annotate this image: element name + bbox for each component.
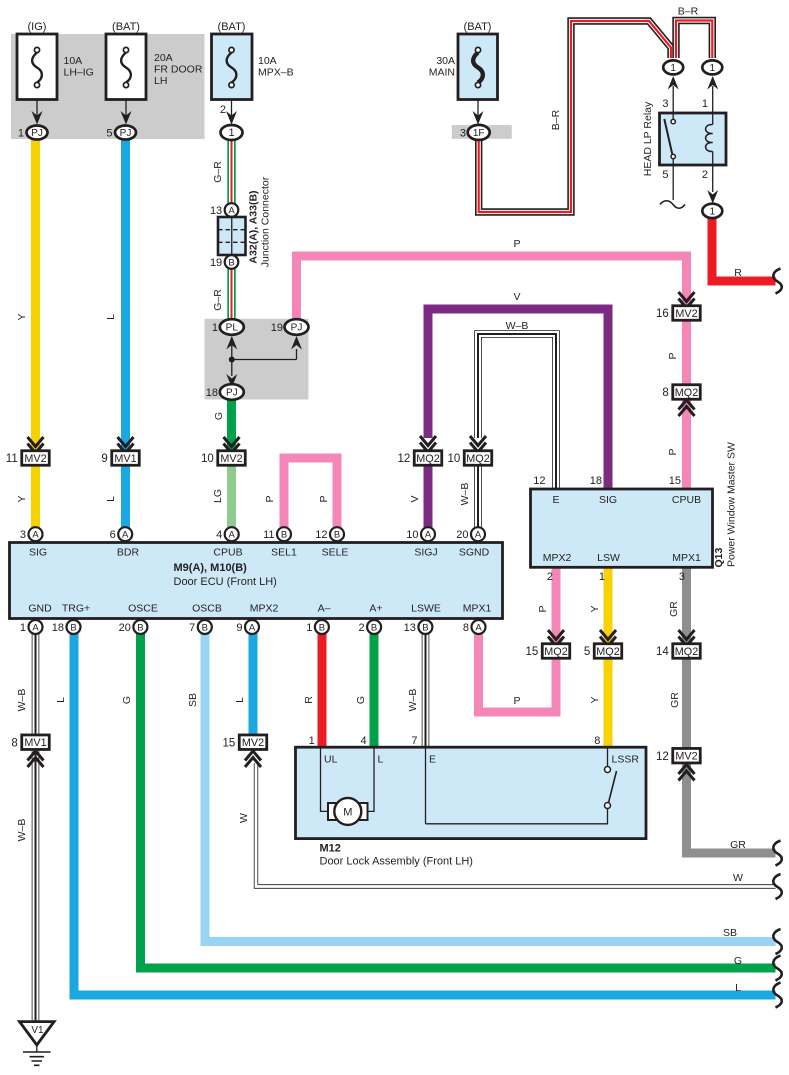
label G-R (upper) (212, 161, 224, 183)
wire P (PJ 19 up/over/down to 16 MV2) (297, 256, 687, 321)
svg-text:P: P (513, 238, 520, 250)
svg-text:MPX1: MPX1 (672, 552, 701, 564)
svg-text:11: 11 (6, 453, 18, 465)
svg-text:W–B: W–B (459, 483, 471, 506)
wire LG (MV2 to ECU CPUB) (227, 464, 236, 529)
svg-text:SIGJ: SIGJ (414, 547, 437, 559)
connector 8 MV1 (11, 735, 49, 750)
svg-text:P: P (537, 605, 549, 612)
pin 13 A (junction connector) (210, 203, 238, 217)
connector 1 (relay pin 1 feed) (702, 60, 722, 74)
chevron below 15 MV2 (245, 751, 261, 767)
svg-text:B: B (228, 257, 234, 268)
connector 1 (relay output) (702, 204, 722, 218)
svg-text:MV1: MV1 (24, 737, 46, 749)
svg-text:15: 15 (669, 475, 681, 487)
svg-text:1: 1 (18, 128, 24, 140)
label Y (above SIG) (16, 495, 28, 502)
label W-B (horizontal) (506, 320, 529, 332)
connector 15 MQ2 (525, 644, 569, 659)
svg-text:7: 7 (189, 622, 195, 634)
connector 15 MV2 (222, 735, 266, 750)
chevron below 8 MQ2 (679, 400, 695, 416)
chevron into 11 MV2 (28, 437, 44, 453)
svg-text:L: L (55, 697, 67, 703)
wire G-R (junction connector B to PL) (227, 266, 235, 322)
svg-text:PJ: PJ (31, 128, 43, 139)
svg-text:8: 8 (11, 737, 17, 749)
label L (below TRG+) (55, 697, 67, 703)
wire Y (Q13 LSW through 5 MQ2 to M12 LSSR) (604, 566, 613, 748)
svg-text:A: A (122, 530, 129, 541)
svg-text:(BAT): (BAT) (464, 21, 492, 33)
curl R end (773, 269, 781, 294)
svg-text:A–: A– (318, 603, 331, 615)
fuse 30A MAIN (429, 21, 498, 125)
connector 14 MQ2 (656, 644, 700, 659)
ECU pin 8 A MPX1 (463, 603, 492, 635)
svg-text:3: 3 (662, 98, 668, 110)
chevron below 12 MV2 (679, 765, 695, 781)
connector 12 MV2 (656, 748, 700, 763)
svg-text:A: A (475, 530, 482, 541)
svg-text:6: 6 (110, 529, 116, 541)
wire GR (Q13 MPX1 through 14 MQ2 and 12 MV2 to right edge) (687, 566, 776, 853)
ECU pin 4 A CPUB (213, 527, 242, 558)
label R (below A-) (303, 696, 315, 704)
label P (below Q13 MPX2) (537, 605, 549, 612)
label W-B (below LSWE) (407, 689, 419, 712)
svg-text:2: 2 (358, 622, 364, 634)
svg-text:18: 18 (52, 622, 64, 634)
label W-B (below GND) (16, 689, 28, 712)
svg-text:1: 1 (309, 735, 315, 747)
label SB (right edge) (723, 927, 737, 939)
wire B-R (1F to relay) (479, 21, 671, 212)
svg-text:MQ2: MQ2 (675, 387, 698, 399)
svg-text:G: G (734, 955, 742, 967)
chevron below 8 MV1 (28, 751, 44, 767)
svg-text:W–B: W–B (506, 320, 529, 332)
wire G (ECU A+ to M12 L) (370, 633, 379, 748)
chevron into 10 MQ2 (470, 436, 486, 452)
svg-text:L: L (378, 754, 384, 766)
label Y (upper run) (16, 313, 28, 320)
svg-text:5: 5 (662, 169, 668, 181)
svg-text:3: 3 (460, 127, 466, 139)
fuse 10A LH-IG (17, 21, 94, 125)
svg-text:LH–IG: LH–IG (64, 67, 94, 79)
svg-text:1: 1 (228, 127, 234, 139)
ECU pin 2 B A+ (358, 603, 382, 635)
svg-text:1: 1 (599, 571, 605, 583)
label P (above SEL1) (264, 495, 276, 502)
svg-text:16: 16 (656, 308, 669, 320)
connector 10 MQ2 (447, 451, 491, 466)
svg-text:W–B: W–B (16, 689, 28, 712)
label G (below OSCE) (121, 696, 133, 704)
label P (top horizontal) (513, 238, 520, 250)
svg-text:LSSR: LSSR (612, 754, 640, 766)
label W (below 15 MV2) (238, 813, 250, 823)
chevron into 15 MQ2 (548, 630, 564, 646)
svg-text:8: 8 (594, 735, 600, 747)
label GR (right edge) (730, 839, 746, 851)
svg-text:M9(A), M10(B): M9(A), M10(B) (174, 562, 248, 574)
label GR (above 12 MV2) (669, 692, 681, 708)
ECU pin 10 A SIGJ (406, 527, 437, 558)
fuse 20A FR DOOR LH (106, 21, 203, 125)
label G (below A+) (355, 696, 367, 704)
svg-text:MQ2: MQ2 (416, 453, 439, 465)
svg-text:L: L (105, 314, 117, 320)
svg-text:MPX2: MPX2 (250, 603, 279, 615)
svg-text:4: 4 (216, 529, 222, 541)
svg-text:Y: Y (16, 495, 28, 502)
svg-text:OSCE: OSCE (128, 603, 158, 615)
svg-text:1: 1 (670, 63, 676, 74)
connector 11 MV2 (6, 451, 49, 466)
svg-text:8: 8 (662, 387, 668, 399)
ECU M9/M10 Door ECU (Front LH) (10, 543, 503, 619)
svg-text:Junction Connector: Junction Connector (260, 176, 272, 267)
svg-text:L: L (105, 496, 117, 502)
chevron into 9 MV1 (118, 437, 134, 453)
svg-text:2: 2 (702, 169, 708, 181)
svg-text:B–R: B–R (678, 6, 699, 18)
svg-text:B: B (422, 622, 428, 633)
svg-text:12: 12 (533, 475, 545, 487)
chevron into 16 MV2 (679, 292, 695, 308)
label V (above SIGJ) (409, 495, 421, 502)
svg-text:A+: A+ (369, 603, 382, 615)
svg-text:M: M (343, 806, 352, 818)
label G-R (lower) (212, 289, 224, 311)
fuse 10A MPX-B (212, 21, 294, 125)
chevron into 12 MQ2 (420, 436, 436, 452)
svg-text:FR DOOR: FR DOOR (154, 64, 203, 76)
svg-text:TRG+: TRG+ (62, 603, 90, 615)
chevron into 14 MQ2 (679, 630, 695, 646)
label L (upper run) (105, 314, 117, 320)
svg-text:11: 11 (263, 529, 274, 541)
wire L (fuse FR DOOR to ECU BDR) (121, 139, 130, 529)
svg-text:G–R: G–R (212, 161, 224, 183)
svg-text:A: A (475, 622, 482, 633)
svg-text:14: 14 (656, 646, 669, 658)
ECU pin 9 A MPX2 (236, 603, 278, 635)
ECU pin 20 A SGND (456, 527, 489, 558)
connector 12 MQ2 (397, 451, 441, 466)
label L (right edge) (735, 982, 741, 994)
svg-text:15: 15 (222, 737, 235, 749)
svg-text:30A: 30A (436, 55, 455, 67)
svg-text:Door ECU (Front LH): Door ECU (Front LH) (174, 576, 277, 588)
curl SB end (773, 929, 781, 954)
label G (below PJ 18) (213, 412, 225, 420)
svg-text:GR: GR (730, 839, 746, 851)
svg-text:W: W (238, 813, 250, 823)
connector 1 (below MPX-B fuse) (221, 125, 243, 140)
wire to relay pin 1 (707, 76, 718, 113)
svg-text:13: 13 (210, 205, 222, 217)
svg-text:V: V (409, 495, 421, 502)
connector 9 MV1 (101, 451, 139, 466)
svg-text:5: 5 (106, 128, 112, 140)
ECU pin 3 A SIG (20, 527, 47, 558)
connector 10 MV2 (201, 451, 245, 466)
svg-text:MPX1: MPX1 (463, 603, 492, 615)
junction connector A32(A) A33(B) (218, 176, 272, 267)
wire P (8 MQ2 to Q13 CPUB) (682, 398, 691, 490)
svg-text:18: 18 (590, 475, 602, 487)
chevron into 5 MQ2 (600, 630, 616, 646)
svg-text:GND: GND (28, 603, 52, 615)
svg-text:GR: GR (669, 692, 681, 708)
svg-text:LG: LG (212, 489, 224, 503)
wire B-R (relay pin 3 to pin 1 jumper) (676, 21, 712, 59)
svg-text:20A: 20A (154, 52, 173, 64)
wire W-B (ECU GND to ground V1) (32, 633, 40, 1022)
label Y (above M12 LSSR) (589, 696, 601, 703)
svg-text:MQ2: MQ2 (596, 646, 619, 658)
svg-text:L: L (234, 697, 246, 703)
label G (right edge) (734, 955, 742, 967)
label L (below MPX2) (234, 697, 246, 703)
svg-text:10A: 10A (258, 55, 277, 67)
label L (above BDR) (105, 496, 117, 502)
svg-text:(BAT): (BAT) (112, 21, 140, 33)
wire W (15 MV2 to right edge) (256, 763, 776, 887)
wire Y (fuse LH-IG to ECU SIG) (31, 139, 40, 529)
relay pin 2 lead to connector (707, 165, 718, 204)
svg-text:12: 12 (397, 453, 410, 465)
ECU pin 6 A BDR (110, 527, 140, 558)
svg-text:1: 1 (20, 622, 26, 634)
svg-text:10A: 10A (64, 55, 83, 67)
svg-text:W: W (733, 872, 743, 884)
svg-text:MPX2: MPX2 (543, 552, 572, 564)
wire SB (ECU OSCB to right edge) (205, 633, 776, 942)
connector 19 PJ (271, 319, 309, 335)
svg-text:V1: V1 (31, 1025, 44, 1036)
svg-text:P: P (513, 695, 520, 707)
label W (right edge) (733, 872, 743, 884)
label W-B (lower ground run) (16, 819, 28, 842)
wire P (16 MV2 to 8 MQ2) (682, 319, 691, 386)
svg-text:1: 1 (306, 622, 312, 634)
svg-text:A: A (425, 530, 432, 541)
svg-text:R: R (303, 696, 315, 704)
curl G end (773, 956, 781, 981)
svg-text:G–R: G–R (212, 289, 224, 311)
svg-text:MV2: MV2 (24, 453, 46, 465)
svg-text:MV2: MV2 (675, 751, 697, 763)
wire L (ECU MPX2 to 15 MV2) (249, 633, 258, 737)
svg-text:9: 9 (236, 622, 242, 634)
svg-text:10: 10 (201, 453, 214, 465)
svg-text:15: 15 (525, 646, 538, 658)
svg-text:MPX–B: MPX–B (258, 67, 294, 79)
svg-text:M12: M12 (320, 843, 341, 855)
ECU pin 20 B OSCE (119, 603, 158, 635)
svg-text:PJ: PJ (291, 323, 303, 334)
svg-text:12: 12 (656, 751, 669, 763)
ECU pin 13 B LSWE (404, 603, 441, 635)
pin 19 B (junction connector) (210, 255, 238, 269)
svg-text:P: P (264, 495, 276, 502)
label P (bottom of pink loop) (513, 695, 520, 707)
svg-text:E: E (552, 494, 559, 506)
svg-text:LSW: LSW (597, 552, 620, 564)
wire P (Q13 MPX2 down through 15 MQ2 to ECU MPX1) (479, 566, 557, 712)
label Y (below Q13 LSW) (589, 605, 601, 612)
curl W end (773, 874, 781, 899)
connector 8 MQ2 (662, 385, 700, 400)
label B-R (top right) (678, 6, 699, 18)
connector 1F gray highlight (452, 125, 512, 139)
svg-text:GR: GR (668, 601, 680, 617)
svg-text:MQ2: MQ2 (544, 646, 567, 658)
svg-text:CPUB: CPUB (213, 547, 242, 559)
svg-text:G: G (121, 696, 133, 704)
svg-text:MV2: MV2 (242, 737, 264, 749)
svg-text:Y: Y (589, 696, 601, 703)
wire R (ECU A- to M12 UL) (318, 633, 327, 748)
svg-text:3: 3 (679, 571, 685, 583)
svg-text:MQ2: MQ2 (675, 646, 698, 658)
svg-text:5: 5 (584, 646, 590, 658)
svg-text:20: 20 (119, 622, 131, 634)
M12 switch LSSR (426, 747, 617, 824)
svg-text:MQ2: MQ2 (466, 453, 489, 465)
label GR (below Q13 MPX1) (668, 601, 680, 617)
svg-text:B: B (137, 622, 143, 633)
svg-text:SIG: SIG (599, 494, 617, 506)
svg-text:(IG): (IG) (28, 21, 47, 33)
svg-text:1: 1 (710, 63, 716, 74)
svg-text:PL: PL (226, 323, 239, 334)
label LG (above CPUB) (212, 489, 224, 503)
svg-text:PJ: PJ (226, 388, 238, 399)
relay contact (pins 3-5) (664, 113, 675, 165)
M12 Door Lock Assembly (Front LH) (296, 735, 647, 868)
svg-text:A: A (229, 530, 236, 541)
svg-text:G: G (355, 696, 367, 704)
svg-text:G: G (213, 412, 225, 420)
ECU pin 1 A GND (20, 603, 52, 635)
svg-text:10: 10 (406, 529, 418, 541)
svg-text:1: 1 (710, 207, 716, 218)
wire G (PJ 18 to connector MV2) (227, 398, 236, 452)
svg-text:P: P (667, 448, 679, 455)
svg-text:LH: LH (154, 75, 167, 87)
svg-text:19: 19 (210, 257, 222, 269)
relay pin 5 open lead (660, 165, 685, 208)
label SB (below OSCB) (187, 693, 199, 707)
svg-text:SB: SB (187, 693, 199, 707)
label R (wire to right edge) (734, 267, 742, 279)
svg-text:A: A (228, 205, 235, 216)
label P (above SELE) (318, 495, 330, 502)
curl GR end (773, 841, 781, 866)
svg-text:1F: 1F (473, 128, 485, 139)
label V (horizontal) (513, 291, 520, 303)
HEAD LP Relay (642, 98, 726, 181)
svg-text:A: A (32, 622, 39, 633)
relay coil (pins 1-2) (706, 113, 713, 165)
connector 16 MV2 (656, 306, 700, 321)
curl L end (773, 983, 781, 1008)
svg-text:4: 4 (360, 735, 366, 747)
connector 1 (relay pin 3 feed) (663, 60, 683, 74)
ECU pin 12 B SELE (315, 527, 348, 558)
svg-text:P: P (667, 352, 679, 359)
svg-text:10: 10 (447, 453, 460, 465)
wire G (ECU OSCE to right edge) (141, 633, 776, 968)
svg-text:18: 18 (206, 387, 218, 399)
svg-text:B: B (281, 530, 287, 541)
svg-text:1: 1 (702, 98, 708, 110)
svg-text:B: B (319, 622, 325, 633)
svg-text:SELE: SELE (322, 547, 349, 559)
svg-text:OSCB: OSCB (192, 603, 222, 615)
svg-text:A: A (249, 622, 256, 633)
ECU pin 11 B SEL1 (263, 527, 297, 558)
svg-text:8: 8 (463, 622, 469, 634)
svg-text:W–B: W–B (16, 819, 28, 842)
chevron into 10 MV2 (224, 437, 240, 453)
svg-text:B–R: B–R (550, 109, 562, 130)
label W-B (above SGND) (459, 483, 471, 506)
ECU pin 18 B TRG+ (52, 603, 90, 635)
svg-text:SEL1: SEL1 (271, 547, 297, 559)
svg-text:LSWE: LSWE (411, 603, 441, 615)
connector 1 PL (212, 319, 244, 335)
svg-text:SB: SB (723, 927, 737, 939)
svg-text:A32(A), A33(B): A32(A), A33(B) (248, 190, 260, 263)
M12 motor M (321, 747, 375, 825)
svg-text:Door Lock Assembly (Front LH): Door Lock Assembly (Front LH) (320, 856, 473, 868)
svg-text:HEAD LP Relay: HEAD LP Relay (642, 101, 654, 176)
svg-text:MV1: MV1 (114, 453, 136, 465)
svg-text:R: R (734, 267, 742, 279)
svg-text:19: 19 (271, 322, 283, 334)
wire V (Q13 SIG up/over/down to 12 MQ2) (428, 309, 608, 490)
svg-text:A: A (32, 530, 39, 541)
svg-text:PJ: PJ (120, 128, 132, 139)
ECU pin 1 B A- (306, 603, 330, 635)
junction block J/B shading (top left) (11, 34, 205, 139)
svg-text:B: B (371, 622, 377, 633)
svg-text:UL: UL (324, 754, 338, 766)
svg-text:L: L (735, 982, 741, 994)
svg-text:MAIN: MAIN (429, 67, 455, 79)
svg-text:12: 12 (315, 529, 327, 541)
wire W-B (10 MQ2 up/over to Q13 E) (478, 334, 556, 490)
wire W-B (10 MQ2 to ECU SGND) (474, 452, 482, 529)
label B-R (vertical run) (550, 109, 562, 130)
svg-text:SIG: SIG (29, 547, 47, 559)
svg-text:13: 13 (404, 622, 416, 634)
svg-text:20: 20 (456, 529, 468, 541)
junction block internal wiring (226, 336, 302, 388)
svg-text:3: 3 (20, 529, 26, 541)
svg-text:1: 1 (212, 322, 218, 334)
svg-text:P: P (318, 495, 330, 502)
label P (above 8 MQ2) (667, 352, 679, 359)
svg-text:B: B (334, 530, 340, 541)
